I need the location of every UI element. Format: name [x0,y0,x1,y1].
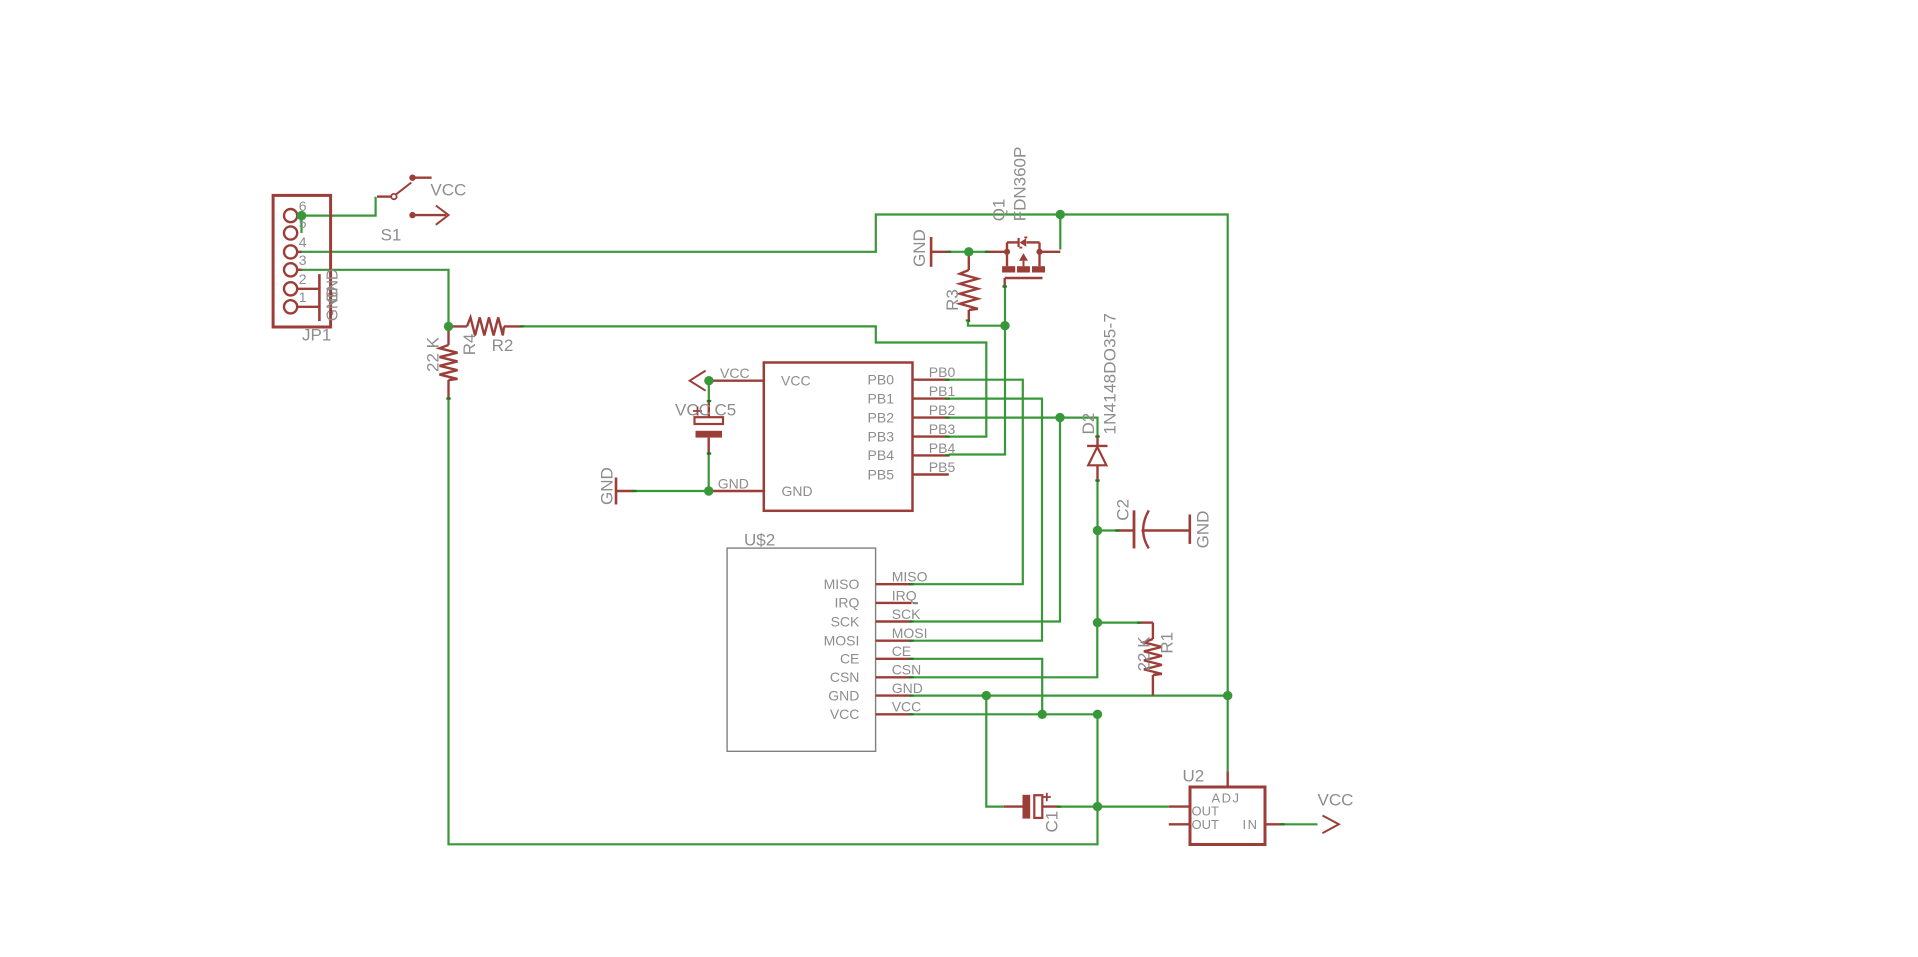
svg-text:1N4148DO35-7: 1N4148DO35-7 [1101,313,1120,434]
svg-text:VCC: VCC [675,401,711,420]
svg-text:PB2: PB2 [929,402,956,418]
svg-text:PB3: PB3 [868,428,895,444]
svg-text:PB1: PB1 [929,383,956,399]
svg-text:S1: S1 [381,225,402,244]
svg-text:CSN: CSN [830,669,860,685]
svg-text:3: 3 [299,252,307,268]
svg-text:GND: GND [598,467,617,505]
svg-text:PB2: PB2 [868,409,895,425]
svg-text:U2: U2 [1183,767,1205,786]
svg-text:PB0: PB0 [929,364,956,380]
svg-text:IN: IN [1243,817,1259,832]
svg-text:PB3: PB3 [929,421,956,437]
svg-text:R4: R4 [460,334,479,356]
svg-text:4: 4 [299,234,307,250]
svg-text:IRQ: IRQ [835,595,860,611]
svg-text:GND: GND [324,269,341,303]
svg-text:VCC: VCC [430,181,466,200]
svg-text:GND: GND [782,483,813,499]
svg-text:GND: GND [718,476,749,492]
svg-text:GND: GND [892,680,923,696]
svg-text:Q1: Q1 [990,199,1009,222]
svg-text:22 K: 22 K [1134,636,1153,672]
svg-text:VCC: VCC [781,373,811,389]
svg-text:R3: R3 [943,289,962,311]
svg-text:FDN360P: FDN360P [1011,147,1030,222]
svg-text:1: 1 [299,289,307,305]
svg-text:IRQ: IRQ [892,587,917,603]
svg-text:PB5: PB5 [868,466,895,482]
svg-text:PB4: PB4 [868,447,895,463]
svg-text:VCC: VCC [830,706,860,722]
svg-text:C2: C2 [1114,499,1133,521]
svg-text:U$2: U$2 [744,531,775,550]
svg-text:D2: D2 [1079,413,1098,435]
svg-text:SCK: SCK [892,606,921,622]
svg-text:GND: GND [910,229,929,267]
svg-text:PB1: PB1 [868,390,895,406]
svg-text:CSN: CSN [892,662,922,678]
svg-text:VCC: VCC [892,699,922,715]
svg-text:OUT: OUT [1192,817,1220,832]
svg-text:C1: C1 [1043,811,1062,833]
svg-text:CE: CE [840,651,859,667]
svg-text:JP1: JP1 [302,326,331,345]
svg-text:PB5: PB5 [929,459,956,475]
svg-text:MOSI: MOSI [824,633,860,649]
svg-text:2: 2 [299,271,307,287]
svg-text:VCC: VCC [720,365,750,381]
svg-text:R2: R2 [492,336,514,355]
svg-text:R1: R1 [1158,632,1177,654]
svg-text:MOSI: MOSI [892,625,928,641]
svg-text:MISO: MISO [824,576,860,592]
svg-text:PB0: PB0 [868,372,895,388]
svg-text:MISO: MISO [892,569,928,585]
svg-text:VCC: VCC [1318,791,1354,810]
svg-text:22 K: 22 K [424,336,443,372]
svg-text:PB4: PB4 [929,440,956,456]
svg-text:SCK: SCK [831,613,860,629]
svg-text:GND: GND [1194,511,1213,549]
svg-text:GND: GND [828,687,859,703]
svg-text:C5: C5 [715,401,737,420]
svg-text:CE: CE [892,643,911,659]
